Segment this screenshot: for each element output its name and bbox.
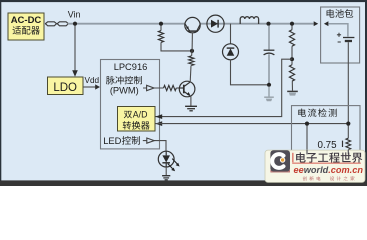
arrow ADC input 1 — [155, 114, 162, 119]
svg-text:LDO: LDO — [53, 82, 77, 94]
svg-text:LPC916: LPC916 — [114, 62, 148, 72]
LPC916 MCU box U1 — [101, 60, 160, 149]
wire battery box internal — [328, 24, 348, 37]
wire Q1 base down — [191, 33, 193, 51]
capacitor C1 — [264, 50, 275, 55]
eeworld logo underline — [292, 163, 361, 164]
label current detection — [298, 108, 306, 116]
node sense left — [305, 122, 309, 126]
resistor R1 pull-up — [158, 31, 163, 43]
node Q1 base — [190, 49, 194, 53]
battery pack box — [321, 7, 360, 63]
frame right — [365, 0, 367, 186]
node L1 output — [266, 22, 270, 26]
svg-text:AC-DC: AC-DC — [11, 15, 42, 26]
wire PWM output — [143, 87, 164, 89]
LED D3 — [158, 151, 174, 167]
wire Vin to R1 — [160, 26, 162, 31]
R6 lead tick — [342, 141, 344, 147]
node sense right — [346, 122, 350, 126]
wire R2 to Q2 base — [176, 87, 179, 89]
wire R1 to base node — [161, 42, 192, 51]
connector J1 jack — [57, 22, 68, 26]
arrow LED control — [147, 138, 154, 143]
wire R6 through watermark — [347, 150, 349, 154]
arrow Vdd into LPC916 — [95, 84, 100, 89]
wire mid to R5 — [291, 61, 293, 65]
wire Vin rail right segment — [200, 23, 314, 25]
node return — [267, 83, 271, 87]
resistor R2 base drive — [164, 85, 177, 90]
arrow inside battery box — [324, 21, 329, 26]
ground return (gray) — [264, 87, 274, 102]
connector J1 plug — [45, 22, 56, 26]
wire R5 to ground — [291, 81, 293, 91]
svg-text:LED: LED — [103, 135, 121, 146]
battery BT1 — [337, 33, 355, 42]
LED light arrow 1 — [172, 159, 179, 167]
resistor R3 — [189, 56, 194, 66]
wire stub from adapter — [44, 23, 46, 25]
wire R4 to mid node — [291, 46, 293, 57]
svg-text:A/D: A/D — [133, 110, 148, 120]
wire ADC input 2 current sense — [155, 123, 348, 125]
eeworld slogan — [303, 176, 307, 180]
arrow rail into battery box — [314, 21, 319, 26]
transistor Q2 NPN — [179, 81, 195, 97]
eeworld logo title tick — [292, 153, 293, 163]
frame bottom — [0, 180, 367, 186]
dual A/D converter box — [118, 107, 156, 132]
diode D1 — [207, 15, 224, 32]
diode D2 freewheel — [223, 44, 239, 60]
node divider top — [290, 22, 294, 26]
arrow PWM output — [147, 85, 154, 90]
wire Vdd — [83, 86, 96, 88]
wire Q2 emitter to ground — [190, 96, 192, 106]
wire R3 to Q2 collector — [189, 66, 192, 83]
AC-DC adapter box — [8, 13, 44, 40]
wire sense left through watermark — [306, 150, 308, 154]
eeworld logo emblem — [270, 150, 290, 171]
svg-text:(PWM): (PWM) — [110, 85, 139, 95]
svg-text:Vin: Vin — [68, 9, 81, 19]
frame top — [0, 0, 367, 2]
ground divider — [287, 91, 298, 95]
svg-text:0.75: 0.75 — [318, 140, 338, 151]
resistor R5 divider bottom — [289, 65, 294, 81]
svg-text:Vdd: Vdd — [85, 76, 100, 85]
wire divider mid to ADC input 1 — [156, 59, 293, 116]
wire battery negative down — [347, 42, 349, 123]
node Vin — [73, 22, 77, 26]
wire node to R3 — [191, 51, 193, 56]
arrow into LDO — [72, 70, 78, 77]
eeworld logo background — [265, 150, 365, 182]
transistor Q1 PNP — [185, 17, 200, 32]
wire Vin to LDO — [74, 26, 76, 72]
frame left — [0, 0, 1, 186]
eeworld logo shadow — [270, 170, 290, 173]
wire LED to ground — [165, 167, 167, 175]
current detection box — [292, 106, 361, 152]
wire LED control out — [143, 141, 166, 152]
wire to R6 — [347, 126, 349, 139]
wire to R4 — [291, 26, 293, 30]
wire node to C1 — [268, 26, 270, 50]
LDO regulator box — [48, 77, 84, 95]
wire Vin rail left segment — [68, 23, 185, 25]
label battery pack — [327, 9, 335, 17]
node divider mid — [290, 57, 294, 61]
svg-text:eeworld.com.cn: eeworld.com.cn — [294, 165, 364, 175]
label LED control — [103, 135, 140, 146]
ground LED — [162, 176, 170, 180]
LED light arrow 2 — [168, 164, 175, 172]
ground Q2 emitter — [185, 106, 197, 111]
label pulse control PWM — [106, 76, 142, 96]
inductor L1 — [240, 17, 258, 24]
eeworld logo title — [296, 152, 305, 162]
wire C1 to return node — [268, 54, 270, 85]
wire R6 down — [347, 150, 349, 152]
arrow ADC input 2 — [155, 121, 162, 126]
node Vin tap for R1 — [159, 22, 163, 26]
wire D2 to return node — [231, 60, 268, 85]
resistor R6 sense 0.75 — [346, 138, 351, 149]
resistor R4 divider top — [289, 30, 294, 46]
wire sense left down — [306, 126, 308, 152]
wire rail to D2 — [230, 24, 232, 44]
